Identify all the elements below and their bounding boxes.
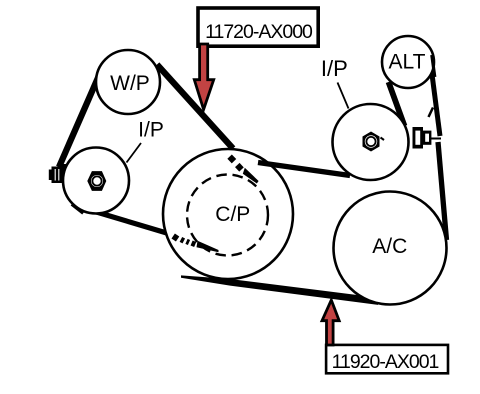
belt hidden dash 2 top entry on C/P	[237, 165, 241, 170]
svg-text:W/P: W/P	[110, 72, 150, 95]
wire belt segment C/P to A/C bottom tapered	[181, 275, 378, 305]
red arrow for 11920-AX001	[322, 300, 339, 345]
pulley C/P inner groove dashed circle	[187, 175, 268, 256]
wire belt segment ALT to A/C lower part	[438, 142, 447, 240]
wire belt segment C/P to I/P right	[258, 163, 350, 176]
nut on I/P right	[363, 132, 380, 152]
svg-text:A/C: A/C	[372, 235, 407, 258]
callout box 11920-AX001	[326, 345, 448, 373]
pulley C/P outer	[163, 149, 293, 279]
belt whisker mark at I/P left bottom	[72, 205, 84, 214]
tick next to nut on I/P right	[381, 138, 385, 141]
bolt on I/P left	[49, 170, 52, 181]
belt hidden taper wedge left entry on C/P	[197, 241, 219, 253]
tick mark left of ALT belt line	[429, 108, 434, 118]
wire belt segment I/P right to ALT	[389, 82, 405, 126]
svg-text:ALT: ALT	[389, 51, 426, 74]
bolt on I/P right	[413, 127, 424, 149]
wire belt segment I/P left to C/P	[88, 210, 170, 235]
pulley I/P left	[63, 148, 129, 214]
pulley ALT	[382, 36, 434, 88]
belt hidden dash 1 top entry on C/P	[230, 157, 234, 162]
wire belt segment ALT to A/C upper part	[429, 51, 440, 136]
svg-text:I/P: I/P	[138, 119, 164, 142]
wire belt segment W/P to C/P	[157, 65, 233, 149]
belt hidden dash 2 left entry on C/P	[187, 241, 190, 242]
callout box 11720-AX000	[198, 8, 318, 46]
pulley W/P	[96, 50, 160, 114]
pulley I/P right	[333, 104, 409, 180]
svg-text:I/P: I/P	[321, 56, 348, 81]
belt hidden taper wedge top entry on C/P	[243, 168, 259, 184]
red arrow for 11720-AX000	[194, 44, 213, 110]
svg-text:11920-AX001: 11920-AX001	[332, 351, 439, 373]
needle of bolt crossing belt	[431, 138, 442, 140]
belt hidden dash 0 left entry on C/P	[173, 236, 177, 239]
nut on I/P left	[87, 171, 106, 191]
belt hidden dash 3 left entry on C/P	[192, 243, 196, 245]
leader line I/P left label	[127, 143, 142, 163]
belt overlap band on ALT right edge	[432, 55, 435, 77]
svg-text:11720-AX000: 11720-AX000	[205, 21, 313, 43]
wire belt segment W/P to I/P left	[59, 64, 104, 167]
pulley A/C	[334, 192, 447, 305]
belt hidden dash 1 left entry on C/P	[181, 239, 184, 241]
leader line I/P right label	[338, 83, 349, 109]
svg-text:C/P: C/P	[215, 203, 250, 226]
